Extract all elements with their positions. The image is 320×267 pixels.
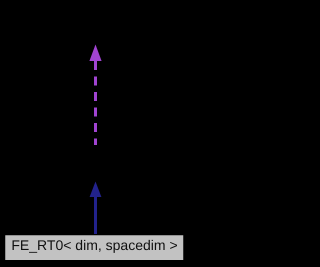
node FE_RT0 box [5,235,184,261]
arrowhead (template relation, darkorchid) [89,45,101,62]
arrowhead (inheritance, midnightblue) [90,182,102,198]
solid edge (inheritance) [94,196,97,234]
svg-text:FE_RT0< dim, spacedim >: FE_RT0< dim, spacedim > [11,237,177,253]
dashed edge (template relation) [94,61,97,145]
